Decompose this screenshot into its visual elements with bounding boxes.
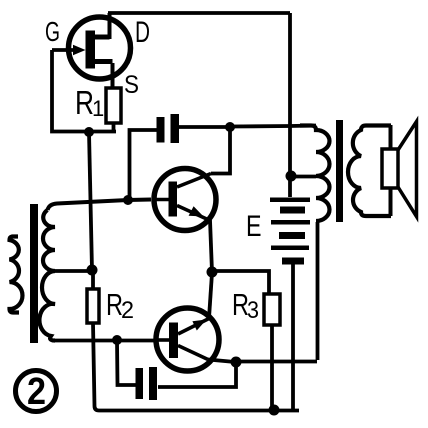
output transformer core bbox=[336, 120, 343, 222]
node D junction dot (Q3 base) bbox=[112, 335, 122, 345]
battery B1 plate short 3 bbox=[282, 258, 304, 265]
node G junction dot (center tap) bbox=[87, 265, 98, 276]
transistor Q2 base lead bbox=[152, 198, 169, 202]
capacitor C2 left plate bbox=[136, 368, 144, 399]
battery B1 plate long 1 bbox=[270, 198, 310, 203]
capacitor C2 right plate bbox=[149, 367, 157, 400]
wire Q2 base: input secondary top to node C bbox=[48, 200, 152, 211]
resistor R1 bbox=[106, 88, 121, 123]
svg-text:D: D bbox=[135, 16, 150, 49]
input transformer core bbox=[30, 204, 38, 343]
transistor Q1 source lead bbox=[95, 59, 113, 64]
wire Q3 emitter up to node E bbox=[209, 273, 212, 318]
output transformer secondary coil bbox=[348, 126, 391, 217]
capacitor C1 left plate bbox=[157, 117, 165, 143]
node H junction dot (R3 bottom on rail) bbox=[269, 405, 280, 416]
transistor Q3 emitter arrow bbox=[192, 320, 206, 331]
transistor Q3 base bar bbox=[169, 323, 178, 359]
transistor Q1 gate bar bbox=[86, 31, 96, 69]
transistor Q2 circle bbox=[154, 169, 216, 231]
capacitor C1 right plate bbox=[171, 114, 180, 143]
wire Q3 base from input secondary bottom bbox=[52, 339, 154, 343]
node B junction dot bbox=[225, 122, 235, 132]
wire output center tap bbox=[291, 175, 316, 179]
wire node A down to input transformer center tap bbox=[89, 132, 92, 270]
wire R2 bottom to ground rail bbox=[93, 323, 299, 411]
wire Q2 emitter down to node E bbox=[210, 220, 212, 272]
wire gate down to node A bbox=[52, 50, 116, 132]
wire drain to top rail bbox=[108, 13, 112, 39]
battery B1 plate short 1 bbox=[280, 207, 305, 214]
svg-text:E: E bbox=[246, 210, 262, 243]
svg-text:2: 2 bbox=[27, 371, 46, 413]
wire speaker leads bbox=[389, 125, 393, 216]
wire node F to output transformer primary bottom bbox=[236, 360, 317, 364]
resistor R3 bbox=[264, 294, 280, 325]
transistor Q1 gate arrow bbox=[73, 45, 86, 55]
svg-text:3: 3 bbox=[247, 297, 259, 324]
wire C1 right to output transformer primary top bbox=[230, 126, 316, 127]
transistor Q3 emitter line bbox=[178, 319, 209, 335]
wire R3 bottom lead bbox=[270, 325, 274, 410]
transistor Q2 collector line bbox=[177, 174, 211, 188]
battery B1 plate short 2 bbox=[279, 232, 305, 239]
transistor Q3 circle bbox=[156, 308, 219, 371]
transistor Q2 base bar bbox=[169, 182, 178, 217]
node F junction dot bbox=[231, 357, 242, 368]
wire output primary bottom lead bbox=[316, 222, 320, 360]
wire R2 top lead bbox=[91, 271, 95, 289]
wire C1 right plate to node B bbox=[179, 125, 230, 129]
battery B1 plate long 3 bbox=[271, 246, 309, 251]
input transformer primary coil bbox=[10, 237, 23, 313]
transistor Q3 collector line bbox=[178, 346, 208, 360]
figure number circled 2 bbox=[16, 371, 57, 412]
svg-text:1: 1 bbox=[92, 96, 104, 121]
speaker horn bbox=[398, 122, 417, 217]
wire C2 left plate to node D bbox=[117, 340, 136, 385]
wire battery negative lead bbox=[291, 264, 295, 409]
input transformer secondary coil bbox=[39, 210, 55, 341]
wire right vertical from top rail to battery positive bbox=[288, 13, 292, 197]
node C junction dot (Q2 base) bbox=[123, 195, 133, 205]
svg-text:S: S bbox=[124, 71, 139, 99]
svg-text:2: 2 bbox=[121, 297, 134, 324]
transistor Q2 emitter arrow bbox=[189, 206, 204, 216]
wire R1 bottom lead bbox=[112, 122, 116, 132]
transistor Q1 (FET) circle bbox=[69, 17, 131, 79]
wire node E to R3 top bbox=[212, 271, 269, 294]
node E junction dot (emitters) bbox=[207, 267, 218, 278]
transistor Q1 drain lead bbox=[95, 35, 110, 40]
wire center tap to R2 top bbox=[55, 269, 92, 273]
resistor R2 bbox=[87, 289, 99, 323]
wire source to R1 bbox=[111, 63, 115, 89]
wire Q3 collector to node F bbox=[208, 360, 235, 363]
wire node F down to C2 right plate bbox=[158, 362, 236, 387]
output transformer primary coil bbox=[300, 126, 330, 222]
wire C1 left plate to Q2 base node bbox=[130, 130, 157, 200]
transistor Q2 emitter line bbox=[177, 206, 210, 221]
battery B1 plate long 2 bbox=[271, 220, 310, 225]
wire node B down to Q2 collector bbox=[211, 127, 230, 174]
svg-text:G: G bbox=[45, 16, 60, 47]
transistor Q3 base lead bbox=[154, 338, 169, 342]
speaker driver rectangle bbox=[382, 149, 398, 188]
node A junction dot bbox=[84, 127, 94, 137]
wire top rail from FET drain to right side bbox=[108, 11, 290, 15]
node I junction dot (output center tap) bbox=[286, 171, 297, 182]
transistor Q1 gate lead bbox=[52, 48, 74, 52]
